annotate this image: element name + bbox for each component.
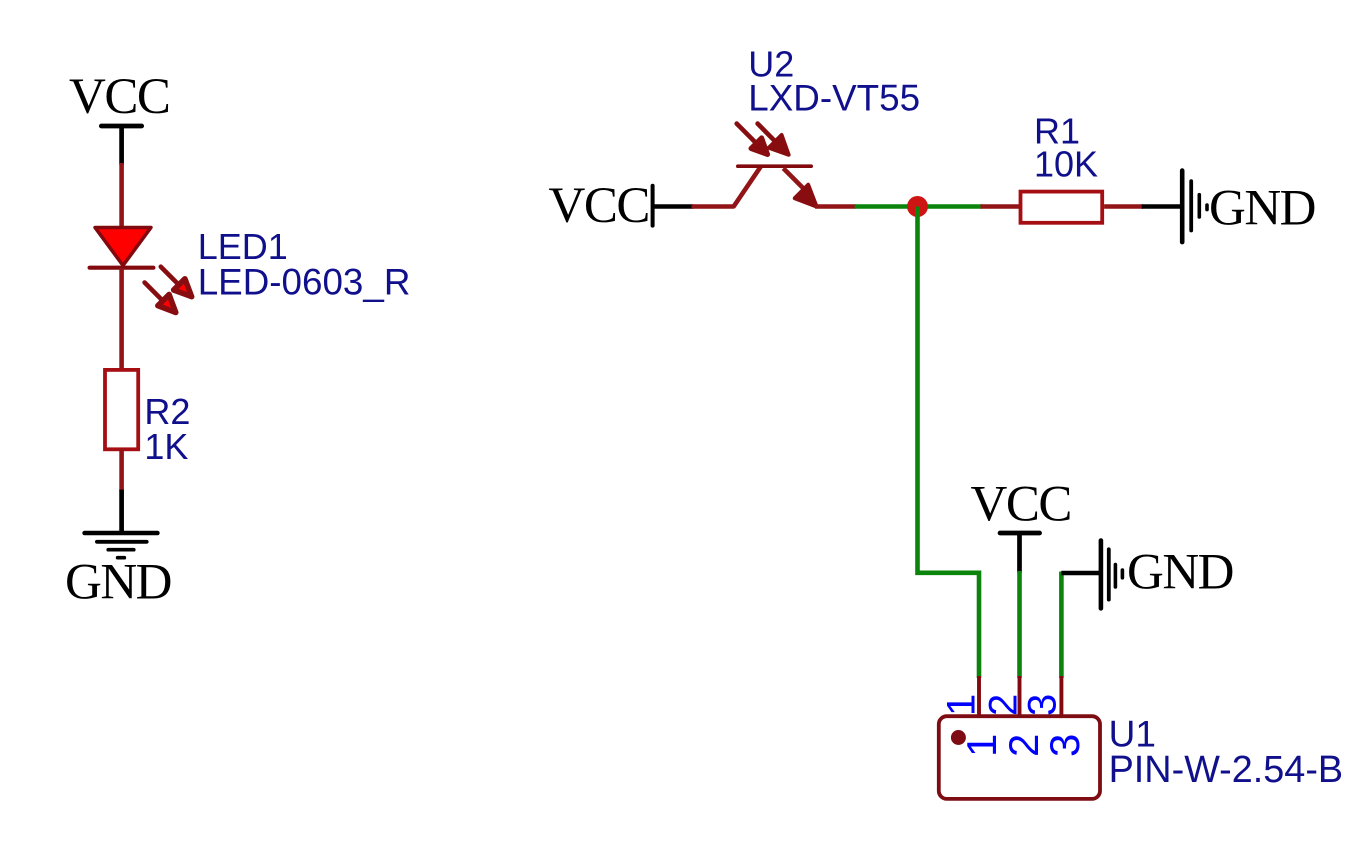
svg-text:10K: 10K bbox=[1034, 144, 1098, 185]
wire R2 bottom pin (dark red) bbox=[119, 449, 124, 491]
svg-text:3: 3 bbox=[1021, 694, 1065, 716]
transistor U2 emitter arrowhead bbox=[795, 185, 817, 207]
transistor U2 emitter shaft bbox=[783, 168, 804, 189]
svg-text:1K: 1K bbox=[144, 426, 188, 467]
svg-text:GND: GND bbox=[1209, 181, 1315, 237]
wire U1 pin1 stub (dark red) bbox=[977, 676, 981, 716]
wire VCC to U2 (black) bbox=[653, 204, 694, 208]
svg-text:VCC: VCC bbox=[69, 69, 169, 125]
U2 light arrow 2 bbox=[758, 124, 789, 155]
svg-text:LED-0603_R: LED-0603_R bbox=[198, 262, 411, 303]
ground symbol (bottom right) bbox=[1101, 541, 1123, 609]
wire U2 emitter pin (dark red) bbox=[815, 204, 856, 209]
wire GND to U1 pin3 (green net) bbox=[1059, 572, 1064, 679]
svg-text:VCC: VCC bbox=[971, 477, 1071, 533]
wire R1 left pin (dark red) bbox=[981, 204, 1020, 209]
transistor U2 base bar bbox=[738, 164, 811, 168]
svg-text:2: 2 bbox=[1000, 734, 1047, 757]
LED LED1 cathode bar bbox=[90, 266, 154, 270]
VCC symbol bar (left) bbox=[101, 124, 141, 129]
wire VCC to U1 pin2 (green net) bbox=[1017, 571, 1022, 678]
svg-text:GND: GND bbox=[65, 555, 171, 611]
wire U1 pin2 stub (dark red) bbox=[1018, 676, 1022, 716]
LED light arrow 1 bbox=[161, 267, 192, 297]
svg-text:VCC: VCC bbox=[549, 178, 649, 234]
wire emitter to R1 (green net) bbox=[855, 204, 982, 209]
connector U1 body bbox=[939, 716, 1100, 799]
wire VCC stub (left, black) bbox=[119, 126, 124, 165]
wire LED anode pin (dark red) bbox=[119, 163, 124, 228]
LED light arrow 2 bbox=[145, 283, 176, 313]
wire LED cathode to R2 (dark red) bbox=[119, 268, 124, 370]
wire R1 right pin (dark red) bbox=[1104, 204, 1143, 209]
svg-text:GND: GND bbox=[1127, 545, 1233, 601]
svg-text:1: 1 bbox=[958, 734, 1005, 757]
svg-text:LXD-VT55: LXD-VT55 bbox=[748, 77, 920, 118]
wire junction down to U1 pin1 (green net) bbox=[918, 207, 980, 679]
resistor R1 body bbox=[1021, 192, 1103, 223]
LED LED1 triangle bbox=[95, 228, 151, 266]
svg-text:2: 2 bbox=[982, 694, 1026, 716]
transistor U2 collector diagonal bbox=[733, 166, 761, 207]
wire to GND (top right, black) bbox=[1142, 204, 1183, 208]
wire VCC stub (bottom, black) bbox=[1017, 533, 1022, 573]
VCC symbol bar (bottom) bbox=[1000, 531, 1040, 536]
resistor R2 body bbox=[105, 370, 138, 449]
svg-text:3: 3 bbox=[1041, 734, 1088, 757]
wire U1 pin3 stub (dark red) bbox=[1059, 676, 1063, 716]
pin-1 marker dot bbox=[951, 730, 966, 745]
ground symbol (top right) bbox=[1182, 171, 1207, 243]
VCC port bar (middle) bbox=[651, 186, 655, 226]
wire GND stub (left, black) bbox=[119, 490, 124, 533]
junction dot bbox=[907, 196, 928, 217]
wire pin3 to GND (bottom, black) bbox=[1061, 571, 1101, 575]
svg-text:1: 1 bbox=[940, 694, 984, 716]
U2 light arrow 1 bbox=[737, 124, 768, 155]
ground symbol (left) bbox=[85, 533, 158, 558]
svg-text:PIN-W-2.54-B: PIN-W-2.54-B bbox=[1109, 749, 1344, 791]
wire U2 collector pin (dark red) bbox=[692, 204, 735, 209]
